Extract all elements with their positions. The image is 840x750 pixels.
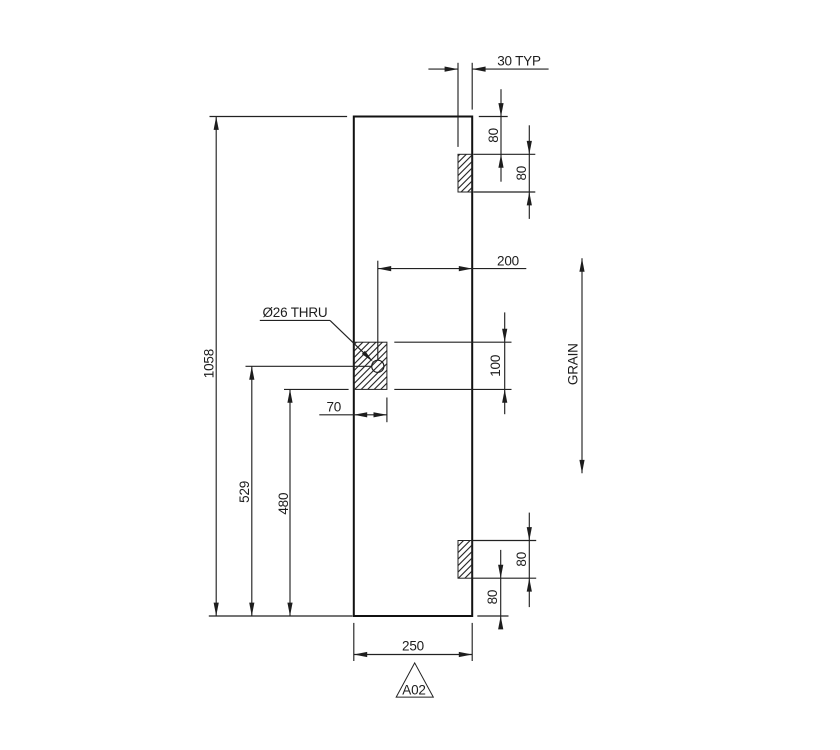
svg-text:80: 80	[485, 590, 500, 605]
dimension 80 top second	[473, 125, 535, 219]
dimension 80 top first	[473, 89, 535, 182]
edge mark triangle A02	[396, 663, 433, 697]
dimension 70	[319, 398, 387, 423]
top hinge recess hatch	[458, 154, 472, 192]
svg-text:70: 70	[326, 400, 341, 415]
svg-text:A02: A02	[402, 682, 425, 697]
svg-text:Ø26 THRU: Ø26 THRU	[263, 305, 328, 320]
leader O26 THRU	[260, 305, 373, 362]
svg-text:1058: 1058	[201, 349, 216, 378]
hole circle O26	[372, 360, 384, 372]
panel outline	[354, 117, 472, 617]
dimension 480	[276, 389, 349, 616]
dimension 200	[378, 253, 527, 360]
svg-text:GRAIN: GRAIN	[566, 343, 581, 385]
svg-text:80: 80	[514, 166, 529, 181]
dimension 529	[237, 366, 372, 616]
svg-text:200: 200	[497, 253, 519, 268]
svg-text:80: 80	[486, 128, 501, 143]
dimension 1058	[201, 117, 352, 617]
svg-text:529: 529	[237, 481, 252, 503]
dimension 250	[354, 623, 472, 661]
dimension 100	[394, 312, 511, 414]
svg-text:480: 480	[276, 493, 291, 515]
dimension 30 TYP	[428, 54, 548, 147]
svg-text:100: 100	[488, 355, 503, 377]
svg-text:250: 250	[402, 639, 424, 654]
svg-text:80: 80	[514, 552, 529, 567]
lock pocket hatch square	[354, 342, 387, 389]
bottom hinge recess hatch	[458, 541, 472, 579]
grain direction arrow	[566, 258, 585, 473]
svg-text:30 TYP: 30 TYP	[497, 54, 541, 69]
dimension 80 bottom lower	[477, 550, 508, 630]
dimension 80 bottom upper	[473, 513, 536, 608]
